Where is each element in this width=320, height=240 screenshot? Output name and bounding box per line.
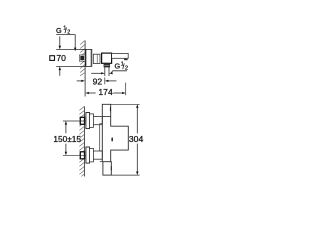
dim 150 top arrow [65,121,67,125]
dim 304 bottom arrow [136,172,138,176]
body bottom short ledge [100,161,103,163]
extension line at spout outlet [125,83,127,96]
opposing arrow from left at outlet tube [91,72,102,74]
dim 174 right arrow [113,92,122,94]
dim 304 line lower [136,144,138,172]
dim 304 bottom extension [111,174,139,176]
leader arrowhead down at escutcheon [74,48,76,52]
svg-text:150±15: 150±15 [53,134,81,144]
dim 304 top extension [111,103,140,105]
sleeve joint line [96,54,98,63]
svg-text:92: 92 [93,77,103,87]
upper union thread in wall (dark) [80,117,84,124]
svg-text:70: 70 [56,53,66,63]
dim 92 right extension (outlet tube edge) [104,77,106,84]
upper escutcheon [86,113,90,129]
dim 70 top arrow [59,36,61,46]
rear panel between unions [100,124,103,151]
dim 150 line upper [65,124,67,133]
upper inlet pipe [93,117,102,125]
square symbol of dim 70 [50,56,55,61]
dim 70 extension top [56,48,86,50]
outlet tube (plan) [104,67,106,76]
dim 150 lower extension [63,154,86,156]
dim 150 bottom arrow [65,152,67,156]
spout outlet tip (plan) [124,59,128,61]
lower inlet pipe [93,151,102,159]
lower escutcheon [86,147,90,163]
wall hatching (plan view) [80,41,85,76]
top cap right edge dark tick [110,107,111,111]
dim 174 left arrow [85,92,89,94]
svg-text:G: G [115,61,121,70]
shower outlet fitting below body (plan, dark) [104,64,110,67]
wall hatching (side view) [79,107,84,177]
wall face line (plan view) + extension down to 174 dim [84,41,86,97]
union thread (dark square, plan) [80,56,84,60]
dim 92 right arrow [108,80,116,82]
spout arm (plan) [112,53,129,58]
wall face line (side view) [84,106,86,176]
bottom knob / volume handle [103,162,111,175]
svg-text:G: G [56,26,62,35]
body sleeve (plan) [93,54,100,63]
spout seam tick (side view) [111,137,113,141]
lower union nut [90,148,94,162]
G1/2 leader under text [111,71,127,74]
svg-text:304: 304 [129,134,144,144]
concealed union behind wall (plan) [79,55,85,61]
dim 304 line upper [136,108,138,134]
dim 70 bottom arrow [59,70,61,76]
knob grip dark tick [111,166,112,170]
leader line for G 1/2 (top-left) [56,35,75,48]
dim 70 extension bottom [56,65,86,67]
lower union thread in wall (dark) [80,152,84,159]
square cartridge body (plan) [102,53,112,63]
dim 150 line lower [65,144,67,153]
body joint line below top cap [102,116,110,118]
upper union nut [90,114,94,128]
dim 304 top arrow [136,104,138,108]
escutcheon inner face line [90,49,92,66]
dim 92 line left part with arrow at wall [77,80,82,82]
escutcheon plate, edge-on (plan) [86,49,92,66]
svg-text:174: 174 [98,87,113,97]
mixer body outline (side view) [102,104,128,161]
dim 150 upper extension [63,120,86,122]
